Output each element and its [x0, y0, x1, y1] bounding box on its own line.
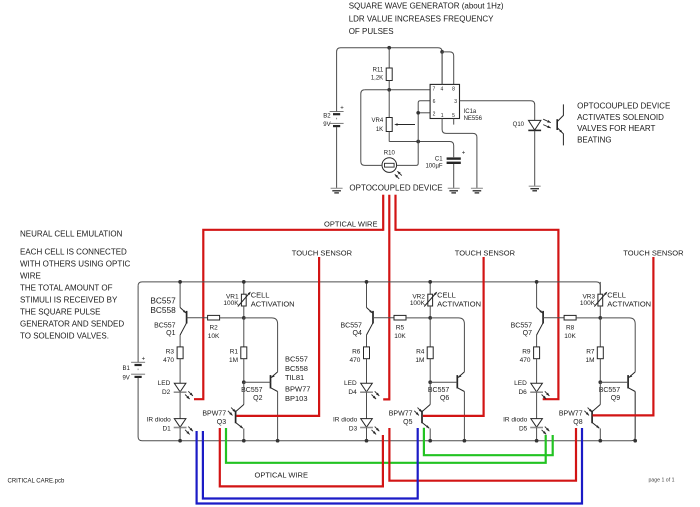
touch sensor wire 2	[423, 257, 484, 416]
optic fiber red D3-Q8	[389, 428, 576, 481]
cell3 wire node to Q8 collector	[599, 382, 601, 404]
cell3 label Q8	[559, 411, 583, 426]
svg-text:ACTIVATION: ACTIVATION	[437, 300, 481, 309]
label page number	[649, 478, 675, 484]
node VCC junction pin4/pin8	[440, 50, 444, 54]
cell1 wire rail to VR1	[243, 282, 245, 294]
cell1 wire to LED D2	[179, 359, 181, 384]
cell1 label R3	[163, 348, 174, 364]
cell1 node base junction	[242, 380, 246, 384]
svg-text:D5: D5	[519, 426, 528, 433]
svg-text:LED: LED	[344, 380, 357, 387]
svg-text:NE556: NE556	[464, 116, 483, 122]
cell3 wire rail to VR3	[599, 282, 601, 294]
svg-text:BC557: BC557	[340, 323, 362, 330]
potentiometer VR4	[386, 90, 415, 142]
cell1 label CELL ACTIVATION	[251, 290, 295, 308]
cell3 label Q9	[599, 387, 621, 402]
cell2 label R5	[394, 324, 406, 340]
svg-text:6: 6	[433, 99, 436, 105]
svg-text:R8: R8	[566, 324, 575, 331]
LED Q10	[528, 120, 541, 130]
cell3 label R9	[520, 348, 531, 364]
svg-text:9V: 9V	[122, 375, 129, 381]
svg-text:THE SQUARE PULSE: THE SQUARE PULSE	[20, 307, 100, 316]
node pin2/pin6 junction	[416, 111, 420, 115]
svg-text:OPTOCOUPLED DEVICE: OPTOCOUPLED DEVICE	[349, 184, 442, 193]
svg-text:CELL: CELL	[437, 290, 456, 299]
touch sensor wire 1	[236, 257, 319, 416]
svg-text:Q1: Q1	[166, 330, 175, 337]
svg-text:page 1 of 1: page 1 of 1	[649, 478, 675, 484]
svg-text:Q8: Q8	[573, 419, 582, 426]
cell2 transistor BC557 Q4	[367, 308, 374, 336]
optical wire to cell2 LED D4	[383, 195, 389, 400]
svg-text:BPW77: BPW77	[389, 411, 413, 418]
svg-text:VALVES FOR HEART: VALVES FOR HEART	[577, 124, 655, 133]
cell2 wire node to Q5 collector	[429, 382, 431, 404]
svg-text:BP103: BP103	[285, 394, 308, 403]
pin 5	[452, 113, 455, 119]
ground pin1	[471, 188, 483, 193]
svg-text:C1: C1	[435, 156, 443, 162]
ground Q10	[529, 186, 541, 191]
svg-text:OPTOCOUPLED DEVICE: OPTOCOUPLED DEVICE	[577, 102, 670, 111]
pin 6	[433, 99, 436, 105]
cell3 label R8	[564, 324, 576, 340]
label transistor types list	[285, 355, 310, 403]
svg-text:100K: 100K	[223, 300, 239, 307]
svg-text:STIMULI IS RECEIVED BY: STIMULI IS RECEIVED BY	[20, 295, 118, 304]
svg-text:1: 1	[441, 113, 444, 119]
cell1 wire rail to BC557	[179, 282, 181, 308]
capacitor C1	[447, 150, 466, 188]
svg-text:ACTIVATION: ACTIVATION	[607, 300, 651, 309]
cell3 node base junction	[598, 380, 602, 384]
svg-text:BC558: BC558	[150, 305, 176, 315]
cell1 IR diode D1	[174, 419, 193, 435]
cell2 node rail branch A	[365, 280, 369, 284]
svg-text:BC558: BC558	[285, 364, 308, 373]
cell2 resistor R4	[427, 347, 433, 359]
cell2 label IR diodo D3	[333, 417, 358, 433]
cell2 node GND rail QB collector	[463, 439, 467, 443]
cell2 IR diode D3	[360, 419, 379, 435]
cell3 label IR diodo D5	[503, 417, 528, 433]
wire VCC rail cells	[138, 282, 600, 294]
svg-text:R3: R3	[166, 348, 175, 355]
svg-text:IR diodo: IR diodo	[147, 417, 172, 424]
svg-text:R2: R2	[209, 324, 218, 331]
svg-text:OPTICAL WIRE: OPTICAL WIRE	[324, 220, 377, 229]
svg-text:BPW77: BPW77	[202, 411, 226, 418]
cell1 phototransistor BPW77 Q3	[228, 405, 244, 441]
svg-text:BC557: BC557	[428, 387, 450, 394]
wire pin3 to Q10	[460, 101, 535, 121]
cell1 node VR bottom junction	[242, 316, 246, 320]
cell2 node rail branch B	[428, 280, 432, 284]
cell2 wire node to Q6 emitter	[430, 318, 464, 372]
svg-text:470: 470	[520, 357, 531, 364]
cell2 wire to LED D4	[366, 359, 368, 384]
svg-text:TOUCH SENSOR: TOUCH SENSOR	[292, 248, 353, 257]
svg-text:+: +	[462, 150, 466, 156]
cell3 wire IR diode to GND rail	[536, 428, 538, 441]
label IC1a NE556	[464, 109, 483, 122]
cell1 wire base to R2	[187, 317, 208, 319]
cell2 LED D4	[360, 383, 379, 399]
cell2 label LED D4	[344, 380, 357, 396]
wire pin5 stub	[453, 119, 455, 125]
svg-text:LED: LED	[514, 380, 527, 387]
svg-text:TOUCH SENSOR: TOUCH SENSOR	[623, 248, 684, 257]
svg-text:Q5: Q5	[403, 419, 412, 426]
svg-text:R9: R9	[522, 348, 531, 355]
cell3 node GND rail QP emitter	[598, 439, 602, 443]
cell3 transistor BC557 Q9	[628, 372, 635, 441]
cell3 wire node to Q9 emitter	[600, 318, 635, 372]
optic fiber green D5-Q5	[424, 428, 553, 456]
svg-text:BPW77: BPW77	[559, 411, 583, 418]
svg-text:Q2: Q2	[253, 395, 262, 402]
cell2 wire VR to node	[429, 306, 431, 318]
svg-text:100K: 100K	[580, 300, 596, 307]
svg-text:R6: R6	[352, 348, 361, 355]
svg-text:9V: 9V	[323, 122, 330, 128]
wire B2 bottom to ground	[336, 127, 338, 188]
optical wire to cell3 LED D6	[396, 230, 559, 399]
svg-text:4: 4	[441, 86, 444, 92]
IC U1 NE556 box	[430, 84, 459, 118]
wire VR4 bottom to C1	[389, 142, 454, 158]
cell2 label CELL ACTIVATION	[437, 290, 481, 308]
svg-text:3: 3	[454, 99, 457, 105]
cell2 node VR bottom junction	[428, 316, 432, 320]
svg-text:R5: R5	[396, 324, 405, 331]
cell1 wire node to Q3 collector	[243, 382, 245, 404]
optical fiber bundle left	[382, 195, 384, 231]
ground C1	[448, 188, 460, 193]
phototransistor of optocoupler	[557, 104, 563, 145]
optic fiber blue D1-Q8	[197, 428, 582, 504]
pin 1	[441, 113, 444, 119]
svg-text:100µF: 100µF	[425, 163, 442, 169]
cell3 node VR bottom junction	[598, 316, 602, 320]
cell1 wire node to R1	[243, 318, 245, 347]
cell1 node GND rail QP emitter	[242, 439, 246, 443]
cell1 transistor BC557 Q1	[180, 308, 187, 336]
wire B2 top to VCC rail	[337, 48, 443, 112]
cell1 label R2	[208, 324, 220, 340]
svg-text:10K: 10K	[564, 333, 576, 340]
cell1 wire collector to R3	[179, 335, 181, 347]
label TOUCH SENSOR 1	[292, 248, 353, 257]
svg-text:Q4: Q4	[353, 330, 362, 337]
cell2 resistor R6	[364, 347, 370, 359]
ground B2	[331, 188, 343, 193]
cell3 label LED D6	[514, 380, 527, 396]
cell2 wire rail to VR2	[429, 282, 431, 294]
cell3 label R7	[585, 348, 594, 364]
svg-text:SQUARE WAVE GENERATOR (about 1: SQUARE WAVE GENERATOR (about 1Hz)	[349, 2, 504, 11]
cell3 wire collector to R9	[536, 335, 538, 347]
cell3 wire to LED D6	[536, 359, 538, 384]
svg-text:Q9: Q9	[611, 395, 620, 402]
svg-text:Q10: Q10	[513, 122, 525, 128]
svg-text:R1: R1	[230, 348, 239, 355]
svg-text:7: 7	[433, 87, 436, 93]
cell2 wire IR diode to GND rail	[366, 428, 368, 441]
pin 8	[452, 86, 455, 92]
wire pin1 to ground	[442, 119, 477, 189]
svg-text:D4: D4	[348, 389, 357, 396]
LDR R10	[382, 158, 402, 179]
cell1 label VR1	[223, 294, 239, 307]
label R11 value	[371, 68, 384, 82]
svg-text:WIRE: WIRE	[20, 271, 41, 280]
cell2 wire base Q6	[430, 381, 457, 383]
cell1 label LED D2	[158, 380, 171, 396]
svg-text:CELL: CELL	[607, 290, 626, 299]
svg-text:THE TOTAL AMOUNT OF: THE TOTAL AMOUNT OF	[20, 283, 113, 292]
cell3 wire base Q9	[600, 381, 628, 383]
wire pins 2-6 tie to node	[397, 101, 431, 166]
cell3 resistor R9	[534, 347, 540, 359]
cell3 node rail branch A	[535, 280, 539, 284]
cell3 LED D6	[530, 383, 549, 399]
label C1 value	[425, 156, 443, 169]
svg-text:10K: 10K	[394, 333, 406, 340]
svg-text:B2: B2	[323, 113, 331, 119]
svg-text:5: 5	[452, 113, 455, 119]
svg-text:ACTIVATES SOLENOID: ACTIVATES SOLENOID	[577, 113, 664, 122]
text neural cell emulation	[20, 229, 130, 340]
wire net R11-VR4-pin7	[365, 89, 430, 91]
cell2 wire collector to R6	[366, 335, 368, 347]
cell3 wire to IR diode D5	[536, 392, 538, 418]
svg-text:IR diodo: IR diodo	[333, 417, 358, 424]
svg-text:D1: D1	[162, 426, 171, 433]
cell1 label Q3	[202, 411, 226, 426]
label OPTOCOUPLED DEVICE	[349, 184, 442, 193]
pin 7	[433, 87, 436, 93]
cell1 wire R1 to base node	[243, 359, 245, 383]
svg-text:BC557: BC557	[154, 323, 176, 330]
cell3 label VR3	[580, 294, 596, 307]
svg-text:1K: 1K	[376, 127, 383, 133]
cell2 label Q6	[428, 387, 450, 402]
label OPTICAL WIRE top	[324, 220, 377, 229]
cell3 wire VR to node	[599, 306, 601, 318]
cell1 label R1	[229, 348, 238, 364]
svg-text:BEATING: BEATING	[577, 135, 612, 144]
svg-text:D3: D3	[349, 426, 358, 433]
cell2 label VR2	[410, 294, 426, 307]
cell1 node GND rail QB collector	[276, 439, 280, 443]
battery B2	[323, 106, 344, 129]
svg-text:8: 8	[452, 86, 455, 92]
svg-text:10K: 10K	[208, 333, 220, 340]
optic fiber red D3-Q3	[220, 428, 383, 486]
cell2 label Q5	[389, 411, 413, 426]
cell1 wire node to Q2 emitter	[244, 318, 278, 372]
cell1 wire to IR diode D1	[179, 392, 181, 418]
svg-text:LED: LED	[158, 380, 171, 387]
cell2 label R4	[415, 348, 424, 364]
svg-text:TO SOLENOID VALVES.: TO SOLENOID VALVES.	[20, 331, 109, 340]
cell1 label Q2	[241, 387, 263, 402]
cell1 resistor R1	[241, 347, 247, 359]
cell2 node base junction	[428, 380, 432, 384]
label TOUCH SENSOR 2	[455, 248, 516, 257]
cell1 node rail branch A	[178, 280, 182, 284]
svg-text:R10: R10	[384, 151, 396, 157]
cell3 potentiometer VR3	[594, 292, 607, 307]
cell1 label IR diodo D1	[147, 417, 172, 433]
pin 4	[441, 52, 444, 92]
svg-text:BC557: BC557	[599, 387, 621, 394]
cell1 wire VR to node	[243, 306, 245, 318]
cell3 label Q7	[511, 323, 533, 337]
optic fiber blue D1-Q5	[203, 428, 418, 499]
text optocoupled device note	[577, 102, 670, 145]
svg-text:+: +	[340, 106, 344, 112]
svg-text:+: +	[142, 356, 146, 362]
cell1 node GND rail branch A	[178, 439, 182, 443]
cell2 label R6	[350, 348, 361, 364]
svg-text:1M: 1M	[229, 357, 238, 364]
node R11/VR4 junction	[387, 88, 391, 92]
label R10	[384, 151, 396, 157]
cell3 wire base to R8	[543, 317, 564, 319]
svg-text:TIL81: TIL81	[285, 373, 304, 382]
cell2 wire rail to BC557	[366, 282, 368, 308]
svg-text:D2: D2	[162, 389, 171, 396]
svg-text:BC557: BC557	[241, 387, 263, 394]
cell1 label Q1	[154, 323, 176, 337]
svg-text:R4: R4	[416, 348, 425, 355]
pin 2	[433, 111, 436, 117]
cell2 wire R5 to VR node	[406, 317, 430, 319]
cell2 resistor R5	[394, 315, 406, 320]
cell3 transistor BC557 Q7	[537, 308, 544, 336]
label VR4 value	[372, 118, 384, 133]
touch sensor wire 3	[593, 257, 654, 415]
svg-text:TOUCH SENSOR: TOUCH SENSOR	[455, 248, 516, 257]
svg-text:BC557: BC557	[150, 295, 176, 305]
cell3 resistor R7	[597, 347, 603, 359]
cell3 wire rail to BC557	[536, 282, 538, 308]
wire Q10 to ground	[534, 131, 536, 187]
cell1 node rail branch B	[242, 280, 246, 284]
cell3 wire R8 to VR node	[576, 317, 600, 319]
label file name	[8, 478, 65, 484]
wire GND rail cells	[138, 378, 635, 441]
cell2 transistor BC557 Q6	[457, 372, 464, 441]
svg-text:1M: 1M	[585, 357, 594, 364]
cell3 wire node to R7	[599, 318, 601, 347]
cell3 label CELL ACTIVATION	[607, 290, 651, 308]
svg-text:GENERATOR AND SENDED: GENERATOR AND SENDED	[20, 319, 124, 328]
svg-text:470: 470	[350, 357, 361, 364]
pin 3	[454, 99, 457, 105]
optical wire to cell1 LED D2	[194, 230, 383, 399]
svg-text:CELL: CELL	[251, 290, 270, 299]
cell2 node GND rail QP emitter	[428, 439, 432, 443]
svg-text:VR4: VR4	[372, 118, 384, 124]
optocoupler arrows	[543, 119, 551, 128]
svg-text:R7: R7	[586, 348, 595, 355]
svg-text:100K: 100K	[410, 300, 426, 307]
cell1 resistor R3	[177, 347, 183, 359]
cell2 potentiometer VR2	[424, 292, 437, 307]
cell3 wire R7 to base node	[599, 359, 601, 383]
wire pin8 branch	[442, 52, 454, 85]
wire B1 top	[137, 286, 139, 362]
cell2 wire node to R4	[429, 318, 431, 347]
svg-text:1M: 1M	[415, 357, 424, 364]
label Q10	[513, 122, 525, 128]
svg-text:470: 470	[163, 357, 174, 364]
svg-text:ACTIVATION: ACTIVATION	[251, 300, 295, 309]
label OPTICAL WIRE bottom	[255, 471, 308, 480]
svg-text:1,2K: 1,2K	[371, 76, 383, 82]
cell1 potentiometer VR1	[238, 292, 251, 307]
node VR4/R10 junction	[416, 140, 420, 144]
svg-text:OF PULSES: OF PULSES	[349, 27, 394, 36]
cell1 wire base Q2	[244, 381, 271, 383]
svg-text:2: 2	[433, 111, 436, 117]
svg-text:D6: D6	[518, 389, 527, 396]
svg-text:NEURAL CELL EMULATION: NEURAL CELL EMULATION	[20, 229, 123, 238]
svg-text:OPTICAL WIRE: OPTICAL WIRE	[255, 471, 308, 480]
wire R10 loop to top	[361, 90, 382, 166]
label TOUCH SENSOR 3	[623, 248, 684, 257]
svg-text:WITH OTHERS USING OPTIC: WITH OTHERS USING OPTIC	[20, 259, 130, 268]
svg-text:CRITICAL CARE.pcb: CRITICAL CARE.pcb	[8, 478, 65, 484]
label transistor types cell1	[150, 295, 176, 315]
wire pin 2 stub	[418, 112, 430, 114]
cell2 label Q4	[340, 323, 362, 337]
svg-text:Q7: Q7	[523, 330, 532, 337]
svg-text:Q6: Q6	[440, 395, 449, 402]
svg-text:IC1a: IC1a	[464, 109, 477, 115]
cell1 wire IR diode to GND rail	[179, 428, 181, 441]
svg-text:BC557: BC557	[511, 323, 533, 330]
node VCC junction R11	[387, 46, 391, 50]
cell3 resistor R8	[564, 315, 576, 320]
cell2 wire to IR diode D3	[366, 392, 368, 418]
battery B1	[122, 356, 145, 381]
svg-text:LDR VALUE INCREASES FREQUENCY: LDR VALUE INCREASES FREQUENCY	[349, 14, 494, 23]
optical fiber bundle right	[394, 195, 396, 231]
svg-text:BC557: BC557	[285, 355, 308, 364]
optic fiber green D5-Q3	[226, 428, 546, 463]
cell3 node GND rail QB collector	[633, 439, 637, 443]
cell3 phototransistor BPW77 Q8	[584, 405, 600, 441]
svg-text:R11: R11	[373, 68, 384, 74]
cell1 LED D2	[174, 383, 193, 399]
cell1 transistor BC557 Q2	[271, 372, 278, 441]
text title	[349, 2, 504, 36]
cell1 wire R2 to VR node	[220, 317, 244, 319]
svg-text:IR diodo: IR diodo	[503, 417, 528, 424]
svg-text:EACH CELL IS CONNECTED: EACH CELL IS CONNECTED	[20, 247, 127, 256]
cell2 wire R4 to base node	[429, 359, 431, 383]
svg-text:Q3: Q3	[217, 419, 226, 426]
cell2 wire base to R5	[373, 317, 394, 319]
svg-text:BPW77: BPW77	[285, 385, 310, 394]
